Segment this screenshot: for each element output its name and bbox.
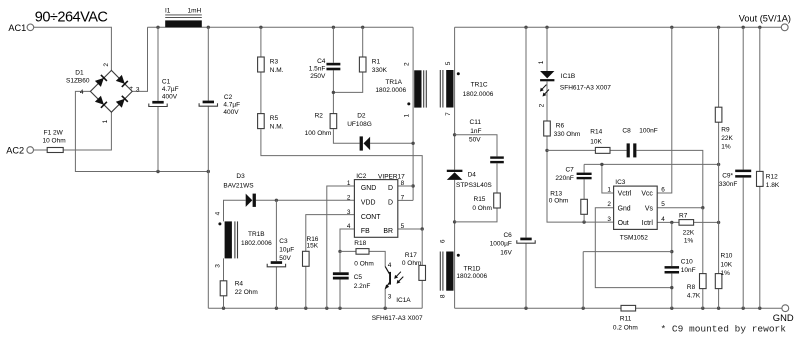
- svg-text:CONT: CONT: [361, 214, 381, 221]
- svg-text:10µF: 10µF: [279, 247, 294, 254]
- svg-text:1000µF: 1000µF: [490, 241, 512, 248]
- svg-text:3: 3: [388, 294, 392, 301]
- svg-text:330K: 330K: [372, 67, 388, 74]
- svg-text:BR: BR: [383, 228, 393, 235]
- labels C1: [162, 78, 179, 100]
- capacitor C1: [149, 101, 167, 107]
- svg-text:8: 8: [439, 294, 446, 298]
- labels C7: [555, 166, 574, 182]
- wire AC2 to fuse: [34, 149, 48, 151]
- svg-text:R7: R7: [679, 212, 688, 219]
- wire IC2 pin 7 D stub: [398, 199, 413, 201]
- svg-text:7: 7: [445, 112, 452, 116]
- svg-text:22 Ohm: 22 Ohm: [235, 289, 258, 296]
- svg-text:IC3: IC3: [615, 179, 626, 186]
- svg-text:10K: 10K: [590, 138, 602, 145]
- labels R8: [687, 284, 701, 300]
- svg-text:C8: C8: [622, 128, 631, 135]
- labels R13: [549, 190, 569, 204]
- wire C4-R2 clamp branch: [333, 27, 359, 143]
- wire secondary top rail Vout: [455, 26, 782, 28]
- svg-text:4.7µF: 4.7µF: [162, 86, 179, 93]
- labels R15: [472, 196, 492, 212]
- junctions on Vctrl line: [600, 163, 720, 166]
- svg-text:16V: 16V: [500, 249, 512, 256]
- svg-text:STPS3L40S: STPS3L40S: [456, 182, 492, 189]
- wire R12 branch: [759, 27, 761, 308]
- wire opto emitter to ground rail: [384, 289, 386, 308]
- wire VDD net D3 to IC2 pin 2: [256, 199, 355, 201]
- svg-text:1%: 1%: [721, 144, 731, 151]
- resistor R9: [715, 107, 722, 122]
- svg-text:330nF: 330nF: [719, 181, 737, 188]
- svg-text:UF108G: UF108G: [347, 121, 372, 128]
- svg-text:C3: C3: [279, 238, 288, 245]
- svg-text:Vs: Vs: [645, 205, 654, 212]
- svg-text:D3: D3: [236, 173, 245, 180]
- svg-text:N.M.: N.M.: [270, 67, 284, 74]
- svg-text:BAV21WS: BAV21WS: [223, 183, 254, 190]
- labels D3: [223, 173, 254, 189]
- svg-text:F1 2W: F1 2W: [44, 130, 64, 137]
- junction Vs node: [701, 206, 704, 209]
- svg-text:1802.0006: 1802.0006: [456, 273, 487, 280]
- svg-text:8: 8: [401, 180, 405, 187]
- resistor R11 sense: [621, 305, 636, 311]
- svg-text:R6: R6: [556, 122, 565, 129]
- labels F1: [43, 130, 66, 145]
- wire C6 branch: [525, 27, 527, 308]
- labels C6: [490, 232, 513, 256]
- svg-text:C1: C1: [162, 78, 171, 85]
- svg-text:R10: R10: [721, 253, 733, 260]
- svg-text:2.2nF: 2.2nF: [354, 283, 371, 290]
- op-amp IC3 TSM1052: [614, 186, 658, 229]
- capacitor C10: [665, 266, 680, 273]
- junctions on secondary ground rail: [524, 307, 761, 310]
- capacitor C11: [490, 156, 504, 163]
- bridge rectifier D1 S1ZB60: [90, 70, 132, 112]
- svg-text:R4: R4: [235, 281, 244, 288]
- svg-text:Gnd: Gnd: [618, 205, 631, 212]
- wire IC2 pin 1 GND: [327, 186, 355, 308]
- svg-text:0.2 Ohm: 0.2 Ohm: [613, 325, 638, 332]
- capacitor C9: [735, 170, 751, 178]
- svg-text:C5: C5: [354, 274, 363, 281]
- labels C3: [279, 238, 294, 262]
- svg-text:R5: R5: [270, 115, 279, 122]
- opto-LED IC1B SFH617: [540, 71, 555, 97]
- svg-text:100 Ohm: 100 Ohm: [305, 130, 332, 137]
- wire TR1B pin 3 via R4 to ground rail: [223, 258, 225, 308]
- svg-text:AC1: AC1: [8, 23, 26, 33]
- wire IC3 pin 2 Gnd kelvin jog: [595, 208, 672, 288]
- svg-text:R17: R17: [405, 252, 417, 259]
- svg-text:330 Ohm: 330 Ohm: [554, 131, 581, 138]
- svg-text:C2: C2: [224, 94, 233, 101]
- svg-text:22K: 22K: [683, 230, 695, 237]
- diode D2 UF108G: [360, 136, 371, 150]
- wire R3-R5 brown-out divider to BR: [261, 27, 422, 229]
- terminal GND: [773, 305, 794, 323]
- svg-text:C11: C11: [470, 119, 482, 126]
- svg-text:15K: 15K: [307, 243, 319, 250]
- wire TR1B pin 4 to D3 anode: [224, 200, 246, 221]
- capacitor C3: [267, 261, 285, 267]
- svg-text:R18: R18: [354, 240, 366, 247]
- junctions on drain node: [411, 142, 414, 188]
- labels I1: [165, 7, 202, 14]
- svg-text:Vctrl: Vctrl: [618, 191, 632, 198]
- wire IC2 pin 4 FB: [340, 229, 354, 251]
- svg-text:I1: I1: [165, 7, 171, 14]
- svg-text:10 Ohm: 10 Ohm: [43, 137, 66, 144]
- wire R8 branch: [702, 208, 704, 309]
- svg-text:1: 1: [403, 114, 410, 118]
- labels IC1A: [372, 262, 423, 322]
- svg-text:3: 3: [136, 87, 140, 94]
- labels D4: [456, 171, 492, 188]
- labels IC1B: [538, 60, 611, 107]
- svg-text:C10: C10: [681, 258, 693, 265]
- svg-text:5: 5: [401, 223, 405, 230]
- terminal AC1: [8, 23, 33, 33]
- junctions on Vout rail: [524, 26, 761, 29]
- svg-text:TR1C: TR1C: [471, 81, 488, 88]
- labels C11: [469, 119, 482, 143]
- op-amp U IC2 VIPER17 controller: [354, 180, 397, 238]
- svg-text:4: 4: [214, 211, 221, 215]
- resistor R14: [595, 147, 610, 153]
- svg-text:10K: 10K: [721, 261, 733, 268]
- wire R18 to opto collector: [340, 251, 385, 266]
- svg-text:FB: FB: [361, 228, 370, 235]
- fuse F1: [47, 148, 63, 153]
- capacitor C6: [517, 238, 535, 244]
- labels TR1D: [439, 239, 487, 298]
- resistor R7: [679, 220, 694, 226]
- resistor R13: [581, 199, 588, 214]
- resistor R1: [359, 57, 366, 72]
- junction VDD node: [275, 199, 278, 202]
- svg-text:4.7µF: 4.7µF: [223, 101, 240, 108]
- note C9 rework: [661, 324, 787, 335]
- transformer winding TR1C: [440, 70, 460, 108]
- resistor R5: [258, 114, 265, 129]
- labels R4: [235, 281, 258, 297]
- svg-text:Out: Out: [618, 220, 629, 227]
- labels TR1C: [445, 61, 494, 116]
- svg-text:Vout (5V/1A): Vout (5V/1A): [739, 14, 791, 24]
- svg-text:400V: 400V: [223, 109, 239, 116]
- resistor R15: [494, 193, 501, 208]
- svg-text:C4: C4: [317, 58, 326, 65]
- svg-text:1: 1: [538, 60, 545, 64]
- junctions on Ictrl line: [670, 221, 720, 224]
- terminal AC2: [6, 146, 33, 156]
- svg-text:IC1A: IC1A: [396, 297, 411, 304]
- svg-text:R14: R14: [590, 129, 602, 136]
- terminal Vout: [739, 14, 791, 31]
- svg-text:90÷264VAC: 90÷264VAC: [35, 10, 108, 26]
- junction BR node: [421, 227, 424, 230]
- labels R14: [590, 129, 602, 146]
- diode D3 BAV21WS: [246, 194, 256, 207]
- junctions on C10 branch: [670, 250, 673, 289]
- wire IC2 pin 5 BR stub: [398, 228, 422, 230]
- svg-text:1: 1: [347, 180, 351, 187]
- svg-text:AC2: AC2: [6, 146, 24, 156]
- wire IC3 pin 4 Ictrl through R7: [657, 221, 718, 223]
- labels IC2: [347, 173, 405, 230]
- wire bridge node 4 return line: [75, 91, 208, 171]
- svg-text:1: 1: [102, 119, 109, 123]
- svg-text:+: +: [129, 85, 133, 92]
- labels IC3: [607, 179, 665, 242]
- svg-text:1.5nF: 1.5nF: [309, 66, 326, 73]
- wire return line down leg: [207, 172, 209, 309]
- labels D2: [347, 113, 372, 129]
- resistor R6: [544, 121, 551, 136]
- labels R7: [679, 212, 695, 244]
- wire C3 branch: [275, 200, 277, 308]
- junctions on return line: [156, 170, 210, 173]
- wire primary top rail: [148, 26, 414, 28]
- svg-text:D: D: [388, 185, 393, 192]
- svg-text:R11: R11: [620, 316, 632, 323]
- svg-text:GND: GND: [773, 312, 794, 323]
- svg-text:1%: 1%: [721, 270, 731, 277]
- svg-text:1.8K: 1.8K: [766, 182, 780, 189]
- svg-text:5: 5: [661, 201, 665, 208]
- junctions on secondary leg: [453, 133, 456, 223]
- svg-text:220nF: 220nF: [555, 175, 573, 182]
- resistor R4: [220, 281, 227, 296]
- labels R9: [721, 126, 733, 150]
- svg-text:1: 1: [607, 186, 611, 193]
- wire secondary ground rail: [455, 307, 782, 309]
- capacitor C5: [333, 272, 349, 279]
- wire R9-R10 output divider: [718, 27, 720, 308]
- labels R17: [402, 252, 422, 267]
- wire IC3 pin 1 Vctrl: [602, 164, 614, 193]
- wire primary ground rail: [208, 307, 422, 309]
- svg-text:6: 6: [661, 186, 665, 193]
- svg-text:GND: GND: [361, 185, 376, 192]
- wire fuse to bridge node 1: [63, 112, 111, 150]
- svg-text:C9*: C9*: [722, 173, 733, 180]
- labels C4: [309, 58, 326, 80]
- svg-text:S1ZB60: S1ZB60: [66, 78, 90, 85]
- svg-text:4: 4: [80, 89, 84, 96]
- diode D4 STPS3L40S: [447, 170, 463, 180]
- resistor R17: [419, 265, 426, 280]
- svg-text:TR1B: TR1B: [248, 231, 265, 238]
- labels R5: [270, 115, 284, 131]
- svg-text:SFH617-A3 X007: SFH617-A3 X007: [560, 85, 611, 92]
- labels R2: [305, 113, 332, 137]
- label 90-264VAC input voltage: [35, 10, 108, 26]
- svg-text:N.M.: N.M.: [270, 124, 284, 131]
- svg-text:1802.0006: 1802.0006: [375, 87, 406, 94]
- svg-text:100nF: 100nF: [639, 128, 657, 135]
- svg-text:3: 3: [347, 209, 351, 216]
- svg-text:0 Ohm: 0 Ohm: [472, 205, 492, 212]
- labels R16: [307, 236, 319, 250]
- svg-text:TR1A: TR1A: [385, 79, 402, 86]
- wire IC2 pin 3 CONT to R16: [306, 215, 355, 252]
- svg-text:250V: 250V: [310, 73, 326, 80]
- wire IC3 pin 5 Vs stub: [657, 207, 703, 209]
- svg-text:C7: C7: [565, 166, 574, 173]
- capacitor C4: [326, 63, 340, 70]
- svg-text:50V: 50V: [279, 255, 291, 262]
- resistor R8: [700, 274, 707, 289]
- wire kelvin sense to R11 left: [583, 252, 672, 309]
- wire R17 branch: [421, 229, 423, 308]
- wire IC2 pin 8 D stub: [398, 185, 413, 187]
- svg-text:D4: D4: [468, 171, 477, 178]
- labels R10: [721, 253, 733, 277]
- wire C2 branch: [207, 27, 209, 171]
- svg-text:5: 5: [445, 61, 452, 65]
- labels TR1B: [214, 211, 272, 267]
- svg-text:4: 4: [347, 223, 351, 230]
- svg-text:2: 2: [403, 62, 410, 66]
- svg-text:1802.0006: 1802.0006: [241, 240, 272, 247]
- labels C10: [681, 258, 696, 274]
- resistor R10: [715, 274, 722, 289]
- wire TR1A primary / drain node: [412, 27, 414, 200]
- labels C2: [223, 94, 240, 116]
- svg-text:2: 2: [607, 201, 611, 208]
- svg-text:Ictrl: Ictrl: [642, 220, 654, 227]
- svg-text:3: 3: [214, 264, 221, 268]
- svg-text:R8: R8: [687, 284, 696, 291]
- svg-text:R2: R2: [315, 113, 324, 120]
- inductor I1 1mH: [165, 15, 202, 27]
- svg-text:IC1B: IC1B: [561, 73, 575, 80]
- svg-text:* C9 mounted by rework: * C9 mounted by rework: [661, 324, 787, 335]
- wire AC1 to bridge node 2: [34, 27, 112, 70]
- wire TR1C-D4-TR1D main secondary leg: [454, 27, 456, 308]
- junctions on opto drive line: [545, 149, 586, 224]
- wire C5 branch: [339, 251, 341, 308]
- labels C5: [354, 274, 371, 290]
- svg-text:SFH617-A3 X007: SFH617-A3 X007: [372, 315, 423, 322]
- wire Vctrl feedback line: [584, 163, 719, 165]
- svg-text:1%: 1%: [684, 237, 694, 244]
- svg-text:R15: R15: [474, 196, 486, 203]
- svg-text:D1: D1: [75, 69, 84, 76]
- svg-text:R1: R1: [372, 58, 381, 65]
- svg-text:D: D: [388, 200, 393, 207]
- capacitor C2: [199, 101, 217, 107]
- wire C1 branch: [157, 27, 159, 171]
- wire C7-R13 branch: [583, 164, 585, 222]
- labels R3: [270, 58, 284, 74]
- svg-text:400V: 400V: [162, 94, 178, 101]
- wire D2 to drain: [370, 142, 413, 144]
- svg-text:10nF: 10nF: [681, 267, 696, 274]
- wire C10 branch: [671, 222, 673, 308]
- labels R1: [372, 58, 388, 74]
- svg-text:7: 7: [401, 195, 405, 202]
- wire R1 branch: [333, 27, 362, 92]
- svg-text:6: 6: [439, 239, 446, 243]
- wire C9 branch: [742, 27, 744, 308]
- svg-text:R9: R9: [721, 126, 730, 133]
- svg-text:4.7K: 4.7K: [687, 292, 701, 299]
- wire bridge node 3 riser to top rail: [132, 27, 147, 91]
- wire C11-R15 snubber loop: [455, 135, 497, 222]
- labels R6: [554, 122, 581, 138]
- wire IC1B-R6 to IC3 Out: [547, 27, 614, 222]
- junctions on primary top rail: [156, 26, 364, 29]
- svg-text:2: 2: [347, 195, 351, 202]
- opto-transistor IC1A SFH617: [385, 267, 404, 290]
- svg-text:2: 2: [539, 103, 546, 107]
- junction FB node: [338, 250, 341, 253]
- svg-text:TSM1052: TSM1052: [620, 235, 649, 242]
- labels TR1A: [375, 62, 410, 118]
- svg-text:50V: 50V: [469, 136, 481, 143]
- svg-text:R13: R13: [550, 190, 562, 197]
- svg-text:0 Ohm: 0 Ohm: [354, 261, 374, 268]
- resistor R18: [356, 249, 369, 255]
- svg-text:Vcc: Vcc: [641, 191, 653, 198]
- transformer winding TR1B: [218, 221, 237, 258]
- svg-text:1mH: 1mH: [188, 7, 202, 14]
- svg-text:4: 4: [661, 216, 665, 223]
- svg-text:1802.0006: 1802.0006: [463, 91, 494, 98]
- svg-text:0 Ohm: 0 Ohm: [402, 260, 422, 267]
- wire IC3 pin 6 Vcc riser: [657, 27, 672, 193]
- capacitor C7: [577, 173, 592, 180]
- svg-text:0 Ohm: 0 Ohm: [549, 197, 569, 204]
- svg-text:IC2: IC2: [356, 173, 367, 180]
- svg-text:4: 4: [388, 262, 392, 269]
- svg-text:D2: D2: [357, 113, 366, 120]
- svg-text:C6: C6: [503, 232, 512, 239]
- resistor R2: [330, 114, 337, 129]
- svg-text:R3: R3: [270, 58, 279, 65]
- svg-text:3: 3: [607, 216, 611, 223]
- resistor R3: [258, 57, 265, 72]
- svg-text:2: 2: [103, 63, 110, 67]
- labels D1: [66, 63, 140, 124]
- capacitor C8: [627, 143, 637, 157]
- svg-text:1nF: 1nF: [470, 128, 481, 135]
- wire R14-C8 compensation to Vs: [547, 150, 703, 207]
- svg-text:VDD: VDD: [361, 200, 376, 207]
- labels C8: [622, 128, 657, 135]
- junctions on primary ground rail: [222, 307, 387, 310]
- resistor R16: [303, 251, 310, 266]
- svg-text:R12: R12: [766, 173, 778, 180]
- wire R16 to ground rail: [305, 266, 307, 308]
- labels R18: [354, 240, 374, 268]
- transformer winding TR1D: [440, 252, 460, 291]
- labels R12: [766, 173, 780, 189]
- labels C9: [719, 173, 737, 189]
- labels R11: [613, 316, 638, 332]
- svg-text:22K: 22K: [721, 135, 733, 142]
- svg-text:TR1D: TR1D: [464, 265, 481, 272]
- resistor R12: [757, 171, 764, 186]
- transformer winding TR1A: [407, 70, 426, 107]
- junction clamp node: [332, 91, 335, 94]
